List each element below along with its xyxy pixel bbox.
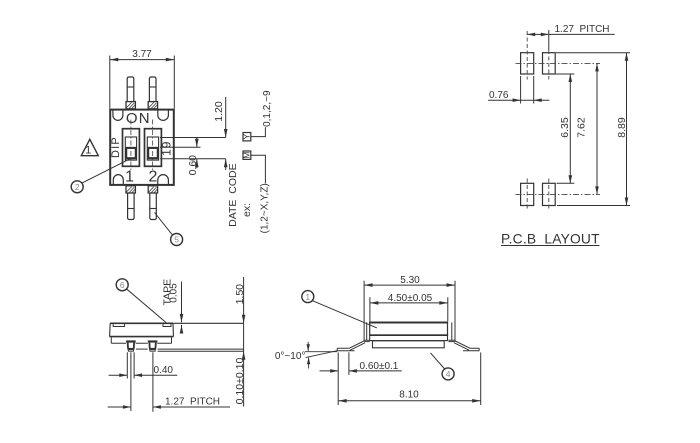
svg-text:1: 1 [305,292,310,302]
base bottom line [111,342,171,344]
centerline pole 1 [130,120,132,171]
base slab [373,341,445,348]
dim 6.35 ext lines [556,73,575,75]
dim 6.35 line [569,74,571,183]
balloon 6 [116,279,128,291]
svg-text:ex:: ex: [241,203,253,217]
middle band [370,335,448,340]
dim 3.77 line [110,59,175,61]
dim 5.30 ext/wall right [454,281,456,342]
dim 8.89 ext lines [556,52,630,54]
balloon 1 [302,291,314,303]
pin 1 top shaft [127,77,134,102]
svg-text:1.50: 1.50 [234,284,246,305]
balloon 5 [171,234,183,246]
pad top-left [521,53,534,74]
top slab [370,322,448,335]
svg-text:5: 5 [174,235,179,245]
svg-text:4.50±0.05: 4.50±0.05 [388,293,433,304]
dim 1.27 pitch line [527,33,615,35]
svg-text:6.35: 6.35 [559,117,571,138]
marking leader bottom [160,158,226,160]
month box M [243,151,251,159]
dim 0.05 arrows [181,282,183,323]
switch 1 channel [125,137,136,160]
pcb line right lower [158,350,244,352]
dim 0.60 line [196,138,198,147]
year box Y [243,133,251,141]
dim 0.60 ext [348,352,350,375]
corner notch bottom-left [113,175,123,185]
svg-text:5.30: 5.30 [400,275,420,286]
dim 4.50 ext lines [369,297,371,321]
dim 0.40 line [109,374,128,376]
wall inner left [366,322,368,340]
pad bottom-left [521,183,534,205]
svg-text:8.89: 8.89 [616,117,628,138]
svg-text:0°~10°: 0°~10° [275,351,306,362]
pad centerline horizontal bottom extended [516,193,601,195]
dim 1.27 pitch line [108,406,131,408]
tape top line [110,322,173,324]
svg-text:0.60: 0.60 [187,155,199,176]
base right edge [171,337,173,343]
pin 2 top collar [148,102,157,109]
svg-text:7.62: 7.62 [575,117,587,138]
month connector [251,155,266,183]
svg-text:(1,2~X,Y,Z): (1,2~X,Y,Z) [260,183,271,233]
pin 2 top shaft [149,77,156,102]
svg-text:DIP: DIP [110,136,122,158]
centerline pole 2 [152,120,154,171]
corner notch top-left [113,111,123,121]
switch 2 knob [148,148,158,158]
lead left shelf [364,340,370,341]
dim 0.60 line [320,370,339,372]
lead left foot [337,348,354,351]
svg-text:4: 4 [446,369,451,379]
balloon 4 [442,368,454,380]
svg-text:6: 6 [120,280,125,290]
svg-text:1: 1 [85,145,91,157]
lead left diagonal [349,341,365,350]
dim 3.77 extension lines [109,56,111,109]
wall inner right [451,322,453,340]
pad centerline horizontal top [516,62,601,64]
pad bottom-right [543,183,556,205]
switch 2 channel [147,137,158,160]
tape tab left [113,324,124,326]
svg-text:0.60±0.1: 0.60±0.1 [360,361,399,372]
switch 1 knob [126,148,136,158]
svg-text:ON: ON [126,110,151,127]
tape top extension to dim [173,322,243,324]
svg-text:0.40: 0.40 [154,365,174,376]
pin ext line center2 [152,352,154,412]
pad centerline vertical left-top [526,31,528,80]
svg-text:0.76: 0.76 [489,90,509,101]
svg-text:2: 2 [75,182,80,192]
svg-text:1.27 PITCH: 1.27 PITCH [555,24,610,35]
base left edge [110,337,112,343]
svg-text:1: 1 [125,169,134,186]
angle arrows [307,342,309,351]
dim 5.30 ext/wall left [363,281,365,342]
seating line right upper [158,348,244,350]
dim 0.76 ext lines [520,76,522,104]
dim 8.10 ext right [480,353,482,406]
dim 4.50 line [370,302,448,304]
corner notch top-right [158,111,169,121]
body outline [110,110,174,185]
pin 2 bottom collar [148,186,157,193]
switch 2 outer [145,129,162,167]
pin ext line left-edge [126,352,128,378]
pad centerline vertical right-top [548,30,550,50]
body side left edge [109,323,112,336]
svg-text:19: 19 [159,141,173,156]
pad centerline vertical right-bottom [548,179,550,212]
leader balloon 5 [155,213,173,235]
svg-text:3.77: 3.77 [132,49,152,60]
leader balloon 4 [431,353,445,369]
tape tab right [163,324,171,326]
angle ref sloped [306,351,338,358]
pin 1 bottom shaft [128,193,135,220]
pin ext line center1 [130,352,132,411]
angle ref horizontal [305,351,337,353]
svg-text:DATE CODE: DATE CODE [227,163,239,226]
dim 8.10 ext left [337,353,339,406]
pad centerline vertical left-bottom [526,179,528,212]
year connector [251,127,266,136]
leader balloon 6 [127,289,166,323]
leader balloon 2 [82,159,130,183]
switch 1 outer [123,129,140,167]
marking leader top [160,137,226,139]
dim 5.30 line [364,284,455,286]
dim 8.89 line [626,53,628,206]
side pin 1 [126,340,136,342]
seating line between pins [136,348,148,350]
dim 1.50 and 0.10 shared line [243,277,245,407]
svg-text:1.27 PITCH: 1.27 PITCH [165,397,220,408]
pin 2 bottom shaft [150,193,157,220]
pin 1 top collar [126,102,135,109]
pin ext line right-edge [133,352,135,378]
dim 8.10 line [338,400,481,402]
svg-text:Y: Y [242,134,252,140]
svg-text:M: M [242,152,252,159]
balloon 2 [71,181,83,193]
dim 0.76 line and arrows [488,99,549,101]
svg-text:0.10±0.10: 0.10±0.10 [234,358,246,405]
note triangle 1 [81,139,98,155]
corner notch bottom-right [158,175,169,185]
pin 1 bottom collar [126,186,135,193]
svg-text:8.10: 8.10 [399,389,419,400]
lead right shelf [448,340,455,341]
svg-text:1.20: 1.20 [213,101,225,122]
leader balloon 1 [312,301,377,328]
svg-text:P.C.B LAYOUT: P.C.B LAYOUT [501,232,600,247]
pad top-right [543,53,556,74]
body base interface line [109,336,173,338]
side pin 2 [148,340,158,342]
dim 1.20 line [225,97,227,138]
svg-text:2: 2 [149,169,158,186]
dim 7.62 line [596,63,598,194]
svg-text:0,1,2,~9: 0,1,2,~9 [262,90,273,127]
lead right foot [463,348,479,351]
body side right edge [172,323,174,336]
lead right diagonal [454,341,470,350]
svg-text:0.05: 0.05 [169,283,180,303]
marking leader middle [160,146,201,148]
